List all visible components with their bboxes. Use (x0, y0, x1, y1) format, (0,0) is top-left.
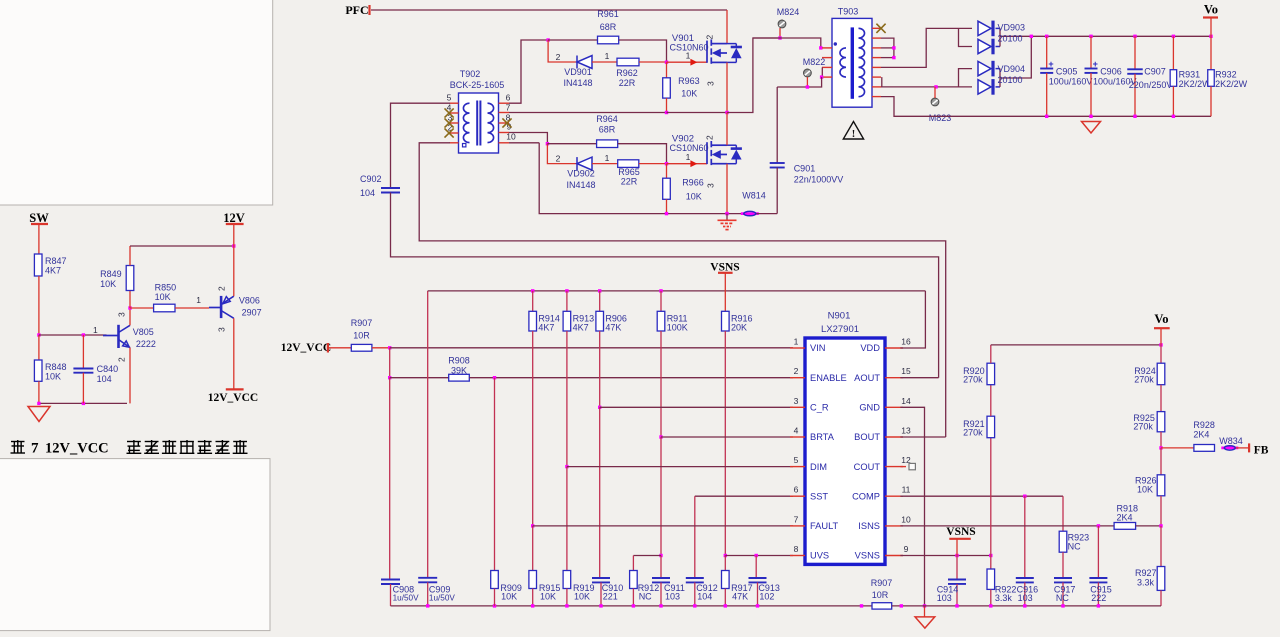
svg-text:47K: 47K (732, 592, 748, 602)
wire to VD902 (547, 144, 577, 164)
wire VD903 output (1000, 35, 1211, 37)
wire VD901 to R962 (592, 61, 617, 63)
gate arrow V902 (690, 160, 697, 167)
ground output (1082, 122, 1101, 134)
wire gate driver ground rail (539, 143, 743, 214)
svg-text:COMP: COMP (852, 491, 880, 501)
svg-text:9: 9 (904, 544, 909, 554)
jumper W834 (1221, 446, 1238, 449)
wire SW to R847 (38, 224, 40, 254)
resistor R848 (34, 360, 42, 381)
resistor R849 (129, 291, 131, 309)
svg-text:M823: M823 (929, 113, 952, 123)
wire T903 bottom to output return (881, 97, 1211, 117)
caption figure 7 (11, 440, 26, 454)
resistor R924 (1160, 345, 1162, 363)
svg-text:10K: 10K (501, 592, 517, 602)
column R913-R919 DIM (566, 331, 568, 467)
svg-text:2K4: 2K4 (1117, 513, 1133, 523)
svg-text:FB: FB (1254, 445, 1269, 457)
T903 right pin stubs (872, 27, 881, 29)
resistor R964 (547, 143, 596, 145)
svg-text:4: 4 (794, 426, 799, 436)
wire R964 to gate node (618, 144, 667, 164)
IC pin 7 FAULT (790, 525, 805, 527)
svg-text:R907: R907 (351, 318, 373, 328)
wire DIM line pin5 (567, 466, 793, 468)
svg-text:7: 7 (506, 103, 511, 113)
wire mid node pin7 (509, 112, 667, 114)
IC pin 15 AOUT (885, 377, 903, 379)
resistor R906 (598, 289, 601, 292)
wire node to R848 (38, 335, 40, 360)
wire AOUT riser (900, 377, 938, 379)
IC pin 4 BRTA (790, 436, 805, 438)
wire T902 pin10 (509, 142, 539, 144)
svg-text:2K4: 2K4 (1193, 430, 1209, 440)
T903 left pin stubs (822, 47, 832, 49)
resistor R913 (565, 289, 568, 292)
wire R908 to pin2 (469, 377, 793, 379)
diode VD903 (978, 21, 993, 37)
svg-text:104: 104 (360, 188, 375, 198)
svg-text:5: 5 (447, 93, 452, 103)
capacitor C917 (1054, 577, 1072, 579)
svg-text:2: 2 (794, 366, 799, 376)
svg-text:3: 3 (794, 396, 799, 406)
svg-text:1u/50V: 1u/50V (393, 594, 419, 603)
svg-text:W834: W834 (1219, 436, 1243, 446)
resistor R965 (618, 160, 639, 168)
svg-text:103: 103 (1018, 593, 1033, 603)
wire primary top (753, 38, 821, 48)
wire V902 drain (726, 113, 728, 146)
wire BRTA line pin4 (661, 436, 793, 438)
IC pin 3 C_R (790, 406, 805, 408)
svg-text:C905: C905 (1056, 67, 1078, 77)
diode VD904 (978, 61, 993, 77)
wire T902 pin6 up (509, 40, 548, 103)
svg-text:10K: 10K (686, 192, 702, 202)
resistor R966 (666, 164, 668, 179)
capacitor C906 (1089, 35, 1092, 38)
wire node to ENABLE (389, 348, 391, 378)
IC pin 1 VIN (790, 347, 805, 349)
wire PFC bus (371, 9, 727, 11)
svg-text:COUT: COUT (854, 462, 881, 472)
svg-text:3: 3 (706, 81, 716, 86)
wire secondary tie node (881, 38, 894, 58)
IC pin 10 ISNS (885, 525, 903, 527)
svg-text:68R: 68R (599, 125, 616, 135)
wire V805 collector (129, 308, 131, 325)
svg-text:VSNS: VSNS (946, 526, 975, 538)
svg-text:1u/50V: 1u/50V (429, 594, 455, 603)
svg-text:R961: R961 (597, 9, 619, 19)
svg-text:20100: 20100 (998, 75, 1023, 85)
svg-text:2907: 2907 (242, 307, 262, 317)
svg-text:1: 1 (93, 325, 98, 335)
wire C_R line pin3 (600, 406, 793, 408)
svg-text:1: 1 (605, 51, 610, 61)
wire BOUT riser (900, 436, 945, 438)
wire V901 drain drop (726, 10, 728, 44)
svg-text:R847: R847 (45, 256, 67, 266)
wire VD903 cathodes (996, 27, 1001, 29)
wire R847 to node (38, 276, 40, 335)
svg-text:270k: 270k (963, 374, 983, 384)
IC pin 13 BOUT (885, 436, 903, 438)
svg-text:6: 6 (794, 485, 799, 495)
svg-text:270k: 270k (1134, 374, 1154, 384)
svg-text:C840: C840 (97, 364, 119, 374)
svg-text:10: 10 (901, 514, 911, 524)
svg-text:103: 103 (665, 592, 680, 602)
resistor R911 (659, 289, 662, 292)
column R906-C910 C_R (599, 331, 601, 407)
wire UVS line pin8 (725, 555, 793, 557)
svg-text:10K: 10K (100, 279, 116, 289)
svg-text:NC: NC (1068, 542, 1081, 552)
column R914-R915 FAULT (532, 331, 534, 526)
node FB (1160, 432, 1162, 448)
wire COMP line (900, 495, 1063, 497)
wire R850 to V806 base (175, 307, 209, 309)
column R920-R921-R922 (990, 438, 992, 556)
svg-text:10K: 10K (1137, 485, 1153, 495)
svg-text:VIN: VIN (810, 343, 826, 353)
capacitor C911 (652, 577, 670, 579)
svg-text:3.3k: 3.3k (1137, 578, 1155, 588)
diode VD901 (577, 56, 592, 69)
svg-text:102: 102 (759, 592, 774, 602)
mosfet V901 (707, 39, 727, 63)
warning triangle (843, 122, 863, 140)
svg-text:103: 103 (937, 593, 952, 603)
wire T902 pin9 to R964 (509, 133, 547, 144)
capacitor C916 column (1024, 496, 1026, 578)
svg-text:LX27901: LX27901 (821, 324, 859, 335)
wire V806 collector to 12V_VCC (233, 318, 235, 389)
svg-text:16: 16 (901, 337, 911, 347)
svg-text:UVS: UVS (810, 551, 829, 561)
svg-text:GND: GND (859, 403, 880, 413)
svg-text:2: 2 (556, 154, 561, 164)
svg-text:4K7: 4K7 (573, 323, 589, 333)
svg-text:22n/1000VV: 22n/1000VV (794, 175, 844, 185)
mosfet V902 (707, 141, 727, 165)
svg-text:T902: T902 (460, 69, 481, 79)
capacitor C912 column (694, 496, 696, 578)
resistor R916 (722, 311, 730, 331)
transistor V806 (209, 307, 221, 309)
svg-text:1: 1 (686, 152, 691, 162)
svg-text:222: 222 (1091, 593, 1106, 603)
wire T902 bottom-left pin to BOUT loop (419, 143, 946, 437)
svg-text:15: 15 (901, 366, 911, 376)
jumper W814 (741, 212, 759, 215)
svg-text:2K2/2W: 2K2/2W (1215, 79, 1248, 89)
resistor R915 (529, 571, 537, 589)
svg-text:VD904: VD904 (998, 64, 1026, 74)
IC pin 2 ENABLE (790, 377, 805, 379)
capacitor C902 (381, 187, 400, 189)
svg-text:3: 3 (706, 183, 716, 188)
capacitor C913 (755, 556, 757, 579)
svg-text:3.3k: 3.3k (995, 593, 1013, 603)
X marks T902 left (445, 108, 454, 117)
IC pin 11 COMP (885, 495, 903, 497)
capacitor C914 (956, 556, 958, 580)
ground rail junction dots (426, 604, 429, 607)
wire V902 source to gnd rail (726, 164, 728, 214)
svg-text:V806: V806 (239, 296, 260, 306)
svg-text:68R: 68R (600, 22, 617, 32)
resistor R962 (617, 58, 639, 66)
svg-text:104: 104 (697, 592, 712, 602)
svg-text:M822: M822 (803, 57, 826, 67)
svg-text:BOUT: BOUT (854, 432, 880, 442)
svg-text:2: 2 (705, 35, 715, 40)
svg-text:4K7: 4K7 (45, 266, 61, 276)
resistor R909 column (494, 378, 496, 571)
svg-text:C902: C902 (360, 174, 382, 184)
svg-text:VSNS: VSNS (855, 551, 880, 561)
svg-text:C901: C901 (794, 164, 816, 174)
svg-text:FAULT: FAULT (810, 521, 839, 531)
svg-text:47K: 47K (605, 323, 621, 333)
svg-text:270k: 270k (1133, 422, 1153, 432)
svg-text:4K7: 4K7 (538, 323, 554, 333)
svg-text:1: 1 (196, 295, 201, 305)
svg-text:10R: 10R (353, 331, 370, 341)
IC pin 5 DIM (790, 466, 805, 468)
svg-text:12V_VCC: 12V_VCC (281, 342, 331, 354)
wire R962 to gate node (639, 61, 667, 63)
capacitor C915 column (1097, 526, 1099, 578)
svg-text:11: 11 (902, 485, 911, 495)
svg-text:R965: R965 (618, 167, 640, 177)
X mark T903 top right (876, 24, 885, 33)
svg-text:R848: R848 (45, 362, 67, 372)
svg-text:+: + (1093, 59, 1098, 69)
wire VSNS to R916 (724, 273, 726, 312)
resistor R907 (351, 344, 372, 351)
svg-text:13: 13 (901, 426, 911, 436)
svg-text:R962: R962 (616, 68, 638, 78)
resistor R926 (1160, 448, 1162, 475)
IC pin 9 VSNS (885, 555, 903, 557)
wire VD904 cathodes (996, 68, 1001, 70)
svg-text:R928: R928 (1193, 420, 1215, 430)
node SW divider (37, 333, 40, 336)
wire to VD901 (548, 40, 577, 62)
svg-text:8: 8 (794, 544, 799, 554)
jumper M823 (931, 98, 939, 106)
wire V806 emitter to 12V node (233, 246, 235, 296)
svg-text:2: 2 (117, 357, 127, 362)
svg-text:C907: C907 (1144, 67, 1166, 77)
svg-text:PFC: PFC (345, 3, 368, 17)
svg-text:100K: 100K (667, 323, 688, 333)
node VIN (388, 346, 391, 349)
wire gate V902 (667, 163, 708, 165)
pin 12 COUT open terminal (900, 466, 906, 468)
node lower gate drive (546, 142, 549, 145)
wire R961 to gate node (619, 40, 667, 62)
svg-text:7: 7 (794, 514, 799, 524)
IC pin 8 UVS (790, 555, 805, 557)
resistor R920 (990, 385, 992, 417)
resistor R914 (531, 289, 534, 292)
wire ground rail left circuit (39, 402, 127, 404)
wire T903 left lower pins (821, 67, 823, 77)
svg-text:10K: 10K (681, 89, 697, 99)
T902 left pin stubs (450, 102, 459, 104)
wire VD904 feed (881, 77, 883, 87)
svg-text:R963: R963 (678, 76, 700, 86)
svg-text:R907: R907 (871, 578, 893, 588)
T902 right pin stubs (499, 102, 510, 104)
svg-text:1: 1 (794, 337, 799, 347)
svg-text:10R: 10R (872, 590, 889, 600)
svg-text:DIM: DIM (810, 462, 827, 472)
svg-text:10K: 10K (155, 292, 171, 302)
wire to R907 (328, 347, 351, 349)
svg-text:R964: R964 (596, 114, 618, 124)
resistor R928 (1161, 447, 1194, 449)
svg-text:NC: NC (1056, 593, 1069, 603)
svg-text:W814: W814 (742, 191, 766, 201)
svg-text:270k: 270k (963, 428, 983, 438)
wire W814 to C901 column (757, 213, 778, 215)
wire VD904 output (1000, 36, 1031, 78)
net label FB (1236, 447, 1249, 449)
wire R848 to ground rail (38, 381, 40, 403)
resistor R917 (722, 571, 730, 589)
svg-text:10K: 10K (45, 372, 61, 382)
wire top bus (428, 290, 926, 292)
resistor R927 (1160, 526, 1162, 567)
capacitor C909 column (427, 291, 429, 578)
svg-text:3: 3 (217, 327, 227, 332)
wire Vo top line (991, 344, 1161, 346)
svg-text:IN4148: IN4148 (563, 78, 592, 88)
svg-text:VSNS: VSNS (710, 261, 739, 273)
wire FAULT line pin7 (533, 525, 793, 527)
svg-text:5: 5 (794, 455, 799, 465)
capacitor C910 (592, 577, 610, 579)
diode VD902 (577, 157, 592, 170)
capacitor C907 (1133, 35, 1136, 38)
svg-text:N901: N901 (828, 311, 851, 322)
svg-text:22R: 22R (619, 78, 636, 88)
svg-text:VDD: VDD (860, 343, 880, 353)
resistor R932 (1209, 35, 1212, 38)
resistor R908 (449, 374, 470, 381)
resistor R912 NC jog (633, 555, 661, 557)
svg-text:AOUT: AOUT (854, 373, 880, 383)
svg-text:R849: R849 (100, 269, 122, 279)
svg-text:2: 2 (705, 135, 715, 140)
resistor R847 (34, 254, 42, 276)
resistor R925 (1160, 385, 1162, 412)
svg-text:6: 6 (506, 93, 511, 103)
svg-text:CS10N60: CS10N60 (669, 143, 708, 153)
resistor R931 (1172, 35, 1175, 38)
svg-text:R966: R966 (682, 178, 704, 188)
column R916-R917 UVS (724, 331, 726, 556)
capacitor C840 (82, 335, 84, 369)
wire gate V901 (667, 61, 708, 63)
svg-text:V805: V805 (133, 327, 154, 337)
svg-text:14: 14 (901, 396, 911, 406)
IC pin 12 COUT (885, 466, 903, 468)
ground (28, 407, 50, 422)
ground IC (924, 606, 926, 617)
svg-text:12V_VCC: 12V_VCC (208, 392, 258, 404)
node gate V902 (665, 162, 668, 165)
figure box bottom-left (0, 459, 270, 631)
svg-text:104: 104 (97, 374, 112, 384)
svg-text:3: 3 (117, 312, 127, 317)
svg-text:2222: 2222 (136, 339, 156, 349)
resistor R918 (1114, 523, 1136, 530)
wire VDD riser (900, 291, 925, 348)
wire 12V drop (233, 224, 235, 246)
resistor R923 NC (1062, 496, 1064, 531)
wire R849 top to rail (129, 246, 131, 266)
IC pin 14 GND (885, 406, 903, 408)
wire V901 source (726, 62, 728, 112)
capacitor C901 (776, 87, 778, 163)
svg-text:VD903: VD903 (998, 23, 1026, 33)
wire GND drop (900, 407, 924, 606)
svg-text:NC: NC (639, 592, 652, 602)
svg-text:Vo: Vo (1154, 312, 1168, 326)
svg-text:C906: C906 (1100, 67, 1122, 77)
resistor R919 (563, 571, 571, 589)
resistor R907 series ground (872, 603, 892, 609)
wire 12V rail (130, 245, 234, 247)
X mark T902 pin8 (502, 118, 511, 127)
svg-text:SST: SST (810, 491, 828, 501)
svg-text:CS10N60: CS10N60 (669, 43, 708, 53)
gate arrow V901 (690, 59, 697, 66)
svg-text:12V_VCC: 12V_VCC (45, 441, 109, 457)
capacitor C908 column (389, 378, 391, 580)
svg-text:R850: R850 (155, 283, 177, 293)
IC pin 6 SST (790, 495, 805, 497)
svg-text:39K: 39K (451, 366, 467, 376)
svg-text:T903: T903 (838, 7, 859, 17)
svg-text:2K2/2W: 2K2/2W (1179, 79, 1212, 89)
svg-text:BCK-25-1605: BCK-25-1605 (450, 80, 505, 90)
svg-text:+: + (1048, 59, 1053, 69)
svg-text:R908: R908 (448, 356, 470, 366)
resistor R963 (666, 62, 668, 78)
svg-text:C_R: C_R (810, 403, 829, 413)
svg-text:2: 2 (217, 286, 227, 291)
figure box top-left (0, 0, 273, 205)
wire C902 to AOUT loop (391, 193, 939, 378)
wire T902 pin5 to C902 (391, 103, 451, 188)
resistor R922 (990, 556, 992, 570)
svg-text:M824: M824 (777, 7, 800, 17)
svg-text:R927: R927 (1135, 568, 1157, 578)
svg-text:7: 7 (31, 441, 39, 457)
svg-text:10K: 10K (540, 592, 556, 602)
